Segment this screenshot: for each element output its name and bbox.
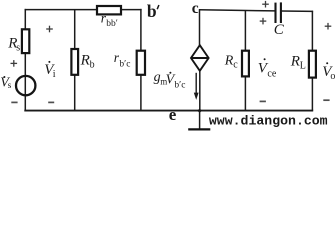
resistor r_bb' <box>97 6 121 14</box>
wire top-right rail segment 2 <box>281 10 313 12</box>
diamond middle bar <box>191 57 209 59</box>
svg-text:c: c <box>233 60 238 71</box>
wire top-right rail segment 1 <box>199 10 275 11</box>
label Vo <box>326 62 328 64</box>
wire b' column top <box>140 9 142 51</box>
resistor r_b'c <box>137 51 145 75</box>
svg-text:L: L <box>300 61 306 72</box>
plus C <box>262 3 269 5</box>
wire left column mid <box>24 53 26 76</box>
minus Vce <box>260 100 266 102</box>
wire top-left rail segment 2 <box>121 9 142 11</box>
wire left column bottom <box>24 95 26 110</box>
wire Rb column top <box>74 10 76 50</box>
svg-text:i: i <box>53 69 56 80</box>
svg-text:s: s <box>16 42 20 53</box>
wire b' column bottom <box>140 75 142 111</box>
wire left column top <box>24 9 26 30</box>
minus Vs <box>11 101 17 103</box>
resistor Rs <box>22 29 29 53</box>
wire bottom rail <box>24 110 313 112</box>
wire center column bottom <box>199 71 201 110</box>
svg-text:C: C <box>274 22 285 38</box>
junction node dot at e column <box>197 109 202 113</box>
label Vce <box>264 58 266 60</box>
source Vs circle <box>16 76 35 95</box>
resistor Rc <box>242 51 249 77</box>
wire center column top <box>199 9 201 45</box>
label Vi <box>48 61 50 63</box>
svg-text:b: b <box>90 60 95 71</box>
svg-text:o: o <box>330 71 335 82</box>
current arrow for gmVb'c <box>195 73 197 94</box>
resistor RL <box>309 51 316 78</box>
plus Vi <box>46 28 53 30</box>
svg-text:www.diangon.com: www.diangon.com <box>209 114 328 129</box>
svg-text:bb′: bb′ <box>106 19 118 29</box>
wire top-left rail segment 1 <box>25 9 98 11</box>
svg-text:e: e <box>169 105 177 124</box>
capacitor C plates <box>274 3 276 23</box>
minus Vi <box>48 101 54 103</box>
svg-text:R: R <box>80 53 90 69</box>
controlled source gmVb'c diamond <box>191 45 209 71</box>
label Vs <box>3 76 5 78</box>
svg-text:s: s <box>8 81 12 91</box>
svg-text:b′c: b′c <box>119 59 130 69</box>
svg-text:ce: ce <box>267 68 276 79</box>
minus Vo <box>323 99 329 101</box>
ground <box>199 111 201 129</box>
svg-text:c: c <box>192 0 199 17</box>
wire RL column bottom <box>311 77 313 110</box>
plus Vs <box>11 62 18 64</box>
plus Vce <box>260 20 267 22</box>
wire Rc column bottom <box>244 76 246 110</box>
svg-text:b: b <box>147 1 157 21</box>
wire through source circle <box>24 76 26 95</box>
wire Rc column top <box>244 10 246 51</box>
svg-text:R: R <box>290 54 300 70</box>
wire Rb column bottom <box>74 75 76 111</box>
plus Vo <box>325 25 332 27</box>
svg-text:b′c: b′c <box>174 81 185 91</box>
resistor Rb <box>71 49 78 75</box>
wire RL column top <box>311 11 313 51</box>
